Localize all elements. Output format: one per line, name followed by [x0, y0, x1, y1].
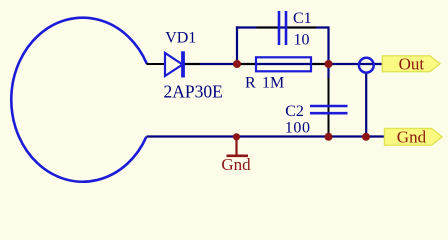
svg-text:VD1: VD1 — [165, 29, 196, 46]
svg-text:10: 10 — [294, 32, 310, 49]
svg-text:1M: 1M — [262, 75, 284, 92]
svg-text:C2: C2 — [285, 103, 304, 120]
svg-text:Gnd: Gnd — [397, 128, 427, 147]
svg-text:Out: Out — [399, 55, 425, 74]
svg-text:2AP30E: 2AP30E — [164, 82, 223, 102]
svg-text:R: R — [245, 75, 256, 92]
svg-text:C1: C1 — [293, 10, 312, 27]
svg-text:100: 100 — [285, 120, 311, 137]
svg-text:Gnd: Gnd — [221, 155, 251, 174]
